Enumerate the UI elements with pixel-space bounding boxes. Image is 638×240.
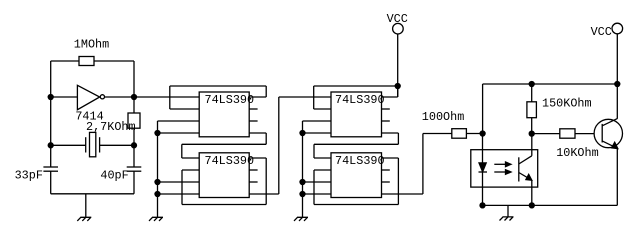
diode D1 LED in optocoupler bbox=[479, 134, 488, 206]
wire: chip4 output QD to 100 ohm resistor bbox=[382, 134, 452, 195]
wire: oscillator top loop bbox=[51, 61, 134, 167]
node: dot rail1 chip2 pin4 bbox=[155, 192, 160, 197]
wire: emitter to ground rail bbox=[616, 148, 618, 205]
inverter U1 7414 bbox=[77, 85, 104, 109]
node: dot top rail VCC2 bbox=[615, 82, 620, 87]
power VCC1 bbox=[393, 23, 404, 97]
optocoupler U6 box bbox=[471, 150, 538, 187]
node: junction dot crystal left bbox=[48, 143, 53, 148]
node: dot rail2 chip4 pin4 bbox=[300, 192, 305, 197]
ground: pair1 rail bbox=[149, 217, 163, 221]
ground: right circuit bbox=[500, 217, 514, 221]
node: dot rail1 chip1 pin4 bbox=[155, 131, 160, 136]
wire: chip3 pin3 to ground rail bbox=[303, 120, 332, 122]
svg-text:74LS390: 74LS390 bbox=[205, 154, 255, 168]
node: dot LED anode bbox=[480, 131, 485, 136]
IC U5 74LS390 (bottom-right pair) bbox=[331, 153, 382, 198]
wire: oscillator ground rail bbox=[51, 171, 134, 217]
node: junction dot right rail / output bbox=[132, 95, 137, 100]
wire: chip2 pin4 to ground rail bbox=[158, 193, 200, 195]
svg-text:10KOhm: 10KOhm bbox=[556, 146, 598, 160]
wire: collector to VCC2 bbox=[616, 34, 618, 119]
wire: chip2 right stub pin3 bbox=[249, 181, 257, 183]
light arrows in optocoupler bbox=[494, 162, 511, 174]
IC U2 74LS390 (top-left) bbox=[199, 92, 249, 137]
wire: chip4 right stub pin2 bbox=[382, 169, 390, 171]
wire: 10K to transistor base bbox=[575, 133, 602, 135]
wire: chip3 QD to chip4 CLK bbox=[314, 133, 398, 158]
wire: chip1 pin4 to ground rail bbox=[158, 132, 200, 134]
wire: chip3 right stub pin2 bbox=[382, 108, 390, 110]
node: junction dot crystal right bbox=[132, 143, 137, 148]
phototransistor Q2 in optocoupler bbox=[519, 134, 532, 206]
svg-text:74LS390: 74LS390 bbox=[335, 154, 385, 168]
wire: chip1 QD to chip2 CLK bbox=[182, 133, 266, 158]
wire: chip2 output QD to chip3 input bbox=[249, 97, 331, 194]
wire: chip3 right stub pin3 bbox=[382, 120, 390, 122]
wire: inverter output to chip1 input bbox=[104, 96, 199, 98]
svg-text:1MOhm: 1MOhm bbox=[74, 38, 109, 52]
ground: pair2 rail bbox=[294, 217, 308, 221]
IC U3 74LS390 (bottom-left) bbox=[199, 153, 249, 198]
resistor R2 2.7KOhm bbox=[128, 113, 140, 128]
wire: top rail to 150K and collector bbox=[483, 84, 618, 134]
wire: chip1 right stub pin3 bbox=[249, 120, 257, 122]
wire: chip2 pin3 to ground rail bbox=[158, 181, 200, 183]
capacitor C2 40pF bbox=[127, 167, 142, 171]
wire: chip3 feedback rectangle QA to CLKB bbox=[314, 86, 398, 109]
wire: 100 ohm to LED anode bbox=[466, 133, 482, 135]
node: dot top rail 150K bbox=[529, 82, 534, 87]
wire: chip2 right stub pin2 bbox=[249, 169, 257, 171]
crystal Y1 bbox=[51, 132, 134, 156]
ground: oscillator bbox=[77, 217, 91, 221]
svg-text:VCC: VCC bbox=[591, 25, 612, 39]
resistor R1 1MOhm bbox=[79, 57, 94, 66]
wire: chip4 feedback QA to CLKB around bottom bbox=[314, 158, 398, 205]
node: dot rail2 chip3 pin4 bbox=[300, 131, 305, 136]
node: junction dot left rail / input bbox=[48, 95, 53, 100]
wire: chip1 right stub pin2 bbox=[249, 108, 257, 110]
svg-text:150KOhm: 150KOhm bbox=[542, 97, 592, 111]
resistor R4 150KOhm bbox=[527, 84, 537, 134]
wire: chip1 pin3 to ground rail bbox=[158, 120, 200, 122]
inverter U1 7414 input wire bbox=[51, 96, 78, 98]
wire: base node to 10K bbox=[532, 133, 560, 135]
wire: chip1 feedback rectangle QA to CLKB bbox=[170, 86, 266, 109]
node: dot ground rail LED cathode bbox=[480, 203, 485, 208]
node: dot rail1 chip2 pin3 bbox=[155, 180, 160, 185]
transistor Q1 bbox=[594, 119, 622, 149]
node: dot rail2 chip4 pin3 bbox=[300, 180, 305, 185]
capacitor C1 33pF bbox=[43, 167, 58, 171]
wire: chip4 right stub pin3 bbox=[382, 181, 390, 183]
resistor R3 100Ohm bbox=[452, 129, 467, 139]
wire: ground rail pair2 bbox=[302, 121, 304, 217]
node: dot ground rail emitter bbox=[529, 203, 534, 208]
wire: 2.7K resistor bottom to crystal node bbox=[133, 128, 135, 167]
wire: chip3 pin4 to ground rail bbox=[303, 132, 332, 134]
wire: ground rail pair1 bbox=[157, 121, 159, 217]
svg-text:33pF: 33pF bbox=[15, 168, 43, 182]
wire: right circuit ground rail bbox=[483, 205, 618, 217]
power VCC2 bbox=[612, 23, 623, 34]
node: dot 150K bottom / base node bbox=[529, 131, 534, 136]
node: dot VCC1 to chip3 feedback bbox=[395, 84, 400, 89]
svg-text:100Ohm: 100Ohm bbox=[422, 110, 464, 124]
svg-text:74LS390: 74LS390 bbox=[335, 93, 385, 107]
wire: chip4 pin3 to ground rail bbox=[303, 181, 332, 183]
wire: chip4 pin4 to ground rail bbox=[303, 193, 332, 195]
svg-text:VCC: VCC bbox=[387, 12, 408, 26]
svg-text:74LS390: 74LS390 bbox=[205, 93, 255, 107]
svg-text:40pF: 40pF bbox=[100, 168, 128, 182]
wire: chip2 feedback QA to CLKB around bottom bbox=[182, 158, 266, 205]
IC U4 74LS390 (top-right pair) bbox=[331, 92, 382, 137]
resistor R5 10KOhm bbox=[560, 129, 575, 138]
